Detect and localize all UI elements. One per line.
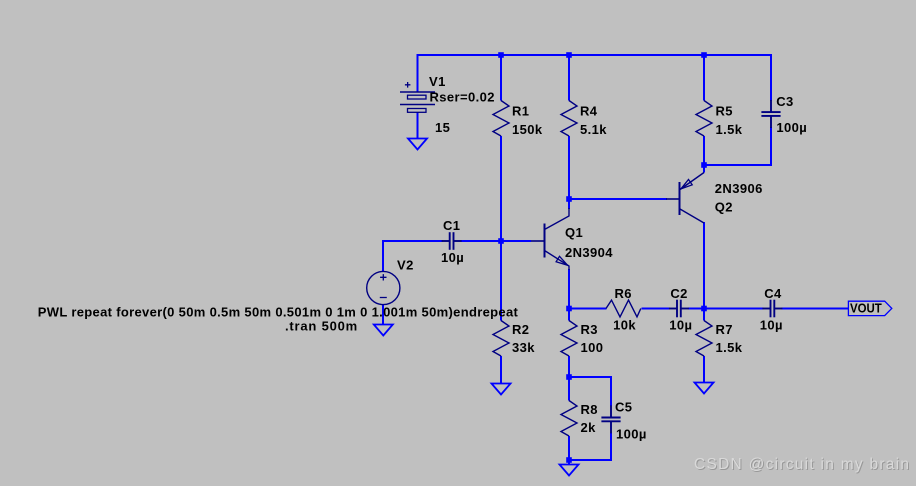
- junction: [566, 52, 572, 58]
- svg-text:1.5k: 1.5k: [716, 340, 743, 355]
- wire C3 bottom rail: [704, 164, 772, 166]
- voltage source V1 (battery symbol): [400, 82, 435, 112]
- svg-text:150k: 150k: [512, 122, 543, 137]
- wire R3 top lead: [568, 309, 570, 321]
- svg-text:10µ: 10µ: [441, 250, 464, 265]
- resistor R7: [696, 321, 712, 357]
- resistor R5: [696, 101, 712, 137]
- svg-text:C3: C3: [776, 94, 793, 109]
- svg-text:R1: R1: [512, 104, 529, 119]
- wire R2 to ground: [500, 356, 502, 384]
- transistor Q1 (NPN 2N3904): [531, 208, 569, 270]
- junction: [701, 306, 707, 312]
- wire R3 bottom to node: [568, 356, 570, 377]
- wire node to C4: [704, 308, 764, 310]
- resistor R8: [561, 401, 577, 437]
- junction: [566, 457, 572, 463]
- svg-text:1.5k: 1.5k: [716, 122, 743, 137]
- svg-text:C4: C4: [764, 286, 782, 301]
- wire C5 bottom to node: [568, 459, 611, 461]
- wire C3 bottom lead: [770, 127, 772, 165]
- junction: [566, 196, 572, 202]
- wire node to Q2 base: [569, 198, 667, 200]
- wire V2 top lead: [382, 240, 384, 272]
- ground (R8): [560, 465, 579, 476]
- wire C1 to Q1 base node: [461, 240, 531, 242]
- junction: [498, 52, 504, 58]
- svg-text:C5: C5: [615, 399, 632, 414]
- svg-text:10µ: 10µ: [760, 317, 783, 332]
- wire node to R6: [568, 308, 607, 310]
- wire Q2 emitter stub: [703, 164, 705, 173]
- svg-text:R2: R2: [512, 322, 529, 337]
- svg-text:.tran 500m: .tran 500m: [285, 318, 358, 333]
- svg-text:R7: R7: [716, 322, 733, 337]
- junction: [566, 374, 572, 380]
- wire R7 to ground: [703, 356, 705, 383]
- wire R6 to C2: [642, 308, 671, 310]
- wire R1 top lead: [500, 54, 502, 101]
- svg-text:15: 15: [435, 120, 450, 135]
- wire node to C5 top: [569, 376, 611, 378]
- wire V2 to C1: [383, 240, 443, 242]
- wire C3 top lead: [770, 55, 772, 101]
- svg-text:R8: R8: [581, 402, 598, 417]
- svg-text:C2: C2: [670, 286, 687, 301]
- wire R5 bottom to node: [703, 136, 705, 165]
- svg-text:R4: R4: [580, 104, 598, 119]
- capacitor C3: [770, 100, 772, 112]
- junction: [566, 306, 572, 312]
- junction: [701, 162, 707, 168]
- svg-text:Q1: Q1: [565, 225, 583, 240]
- wire C4 to VOUT flag: [781, 308, 849, 310]
- svg-text:C1: C1: [443, 218, 460, 233]
- svg-text:PWL repeat forever(0 50m 0.5m: PWL repeat forever(0 50m 0.5m 50m 0.501m…: [38, 305, 519, 320]
- wire Q1 emitter down: [568, 269, 570, 310]
- svg-text:R3: R3: [581, 322, 598, 337]
- resistor R3: [561, 321, 577, 357]
- svg-text:2N3906: 2N3906: [715, 181, 763, 196]
- capacitor C2: [669, 308, 677, 310]
- wire C5 bottom lead: [610, 433, 612, 461]
- watermark CSDN: [694, 456, 910, 474]
- wire R1 bottom to node: [500, 136, 502, 241]
- wire R5 top lead: [703, 54, 705, 101]
- svg-text:V2: V2: [397, 257, 414, 272]
- wire R4 top lead: [568, 54, 570, 101]
- svg-text:VOUT: VOUT: [850, 301, 882, 316]
- resistor R1: [493, 101, 509, 137]
- ground (R2): [492, 384, 511, 395]
- svg-text:10µ: 10µ: [669, 317, 692, 332]
- wire R8 to ground: [568, 436, 570, 465]
- resistor R6: [606, 300, 641, 317]
- svg-text:R6: R6: [615, 286, 632, 301]
- ground (R7): [695, 383, 714, 394]
- svg-text:10k: 10k: [613, 317, 636, 332]
- junction: [498, 238, 504, 244]
- svg-text:2k: 2k: [581, 420, 597, 435]
- ground (V2): [374, 325, 393, 336]
- resistor R2: [493, 321, 509, 357]
- wire R4 bottom to node: [568, 136, 570, 199]
- voltage source V2: [367, 271, 400, 304]
- svg-text:33k: 33k: [512, 340, 535, 355]
- wire Q1 collector lead: [568, 199, 570, 209]
- resistor R4: [561, 101, 577, 137]
- svg-text:Q2: Q2: [715, 200, 733, 215]
- svg-text:Rser=0.02: Rser=0.02: [430, 89, 495, 104]
- capacitor C4: [762, 308, 770, 310]
- svg-text:100µ: 100µ: [776, 120, 807, 135]
- wire C5 top lead: [610, 376, 612, 406]
- svg-text:V1: V1: [429, 74, 446, 89]
- wire V2 to ground: [382, 304, 384, 325]
- wire Q2 collector down: [703, 222, 705, 310]
- svg-text:2N3904: 2N3904: [565, 245, 613, 260]
- capacitor C5: [610, 405, 612, 417]
- wire R8 top lead: [568, 377, 570, 401]
- wire R2 top lead: [500, 241, 502, 321]
- wire C2 to node: [688, 308, 705, 310]
- svg-text:100µ: 100µ: [616, 427, 647, 442]
- node VOUT (output flag): [848, 301, 891, 315]
- transistor Q2 (PNP 2N3906): [666, 173, 704, 224]
- svg-text:100: 100: [581, 340, 604, 355]
- wire R7 top lead: [703, 309, 705, 321]
- svg-text:5.1k: 5.1k: [580, 122, 607, 137]
- capacitor C1: [442, 240, 450, 242]
- wire top supply rail: [418, 54, 773, 56]
- svg-text:R5: R5: [716, 104, 733, 119]
- ground (V1): [408, 139, 427, 150]
- junction: [701, 52, 707, 58]
- wire V1 top lead: [417, 54, 419, 92]
- wire V1 to ground: [417, 112, 419, 139]
